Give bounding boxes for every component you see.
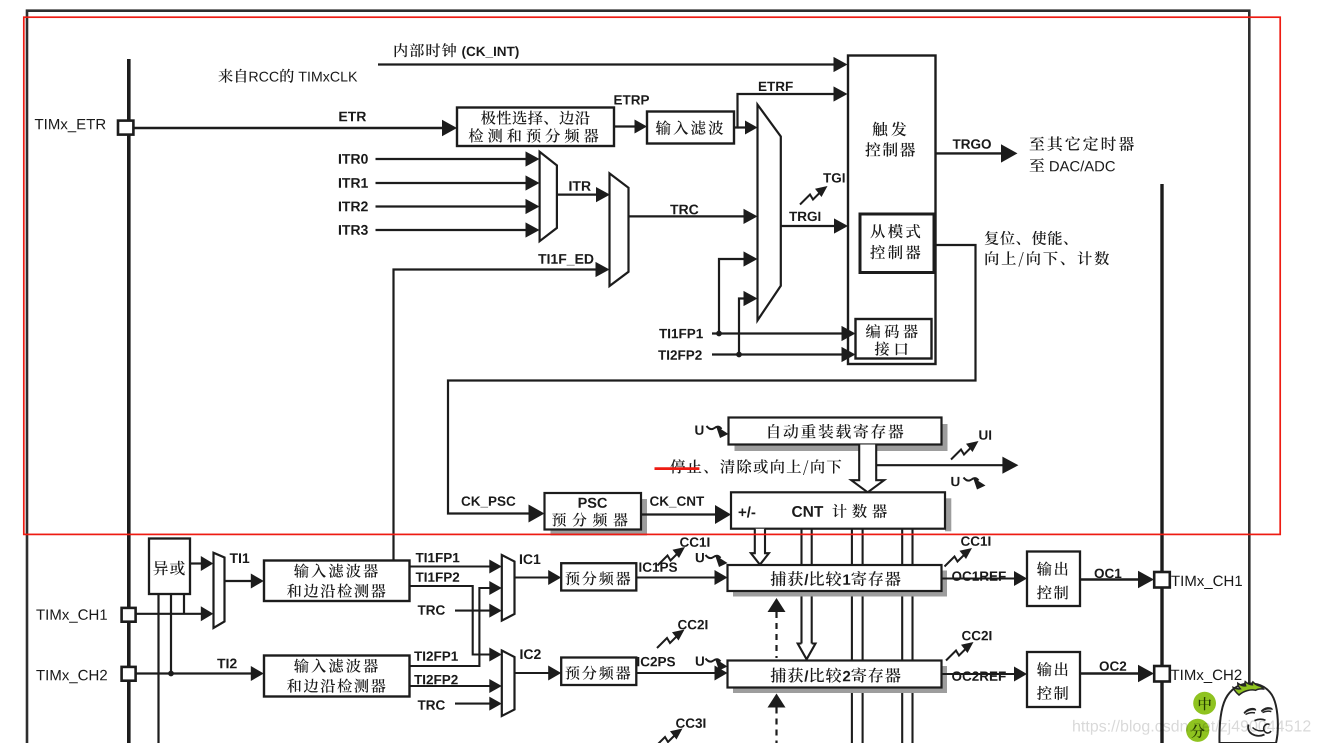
- label TIMx_CH2 (right): [1171, 670, 1242, 684]
- wire IC1PS into capture1: [636, 576, 715, 578]
- box capture/compare register 2 捕获/比较2寄存器: [733, 666, 947, 693]
- double line B down: [851, 529, 853, 565]
- label TI2FP2 (top): [658, 350, 702, 359]
- box input filter & edge detector 2 输入滤波器和边沿检测器: [264, 656, 410, 697]
- label TIMx_CH1 (right): [1171, 576, 1242, 590]
- label 内部时钟 (CK_INT): [395, 43, 519, 59]
- hollow arrow (line A) into capture2: [800, 591, 802, 648]
- wire TRC into IC1 mux: [455, 610, 490, 612]
- box capture/compare register 1 捕获/比较1寄存器: [733, 571, 947, 597]
- mascot eyes: [1244, 708, 1257, 714]
- wire ETRP: [614, 125, 636, 127]
- wire TIMx_CH1 to TI1 mux: [136, 613, 202, 615]
- green badge circle 分 (cut off): [1186, 719, 1209, 742]
- label 复位、使能、: [985, 231, 1068, 245]
- wire ETR: [133, 127, 443, 130]
- label CC1I + zigzag (right): [945, 553, 967, 567]
- red annotation strikethrough on 停止: [655, 467, 700, 470]
- label CK_CNT: [650, 496, 704, 507]
- wire TI1FP1 to encoder: [712, 332, 843, 334]
- label TI1: [230, 553, 250, 563]
- label CC2I + zigzag (left, mid): [657, 634, 679, 648]
- label ETRP: [614, 95, 649, 104]
- label U + update arrow into ARR: [695, 426, 703, 435]
- wire TRC into IC2 mux: [455, 703, 490, 705]
- box prescaler 1 预分频器: [561, 563, 636, 590]
- wire CK_CNT: [641, 513, 716, 515]
- box trigger controller 触发控制器: [848, 56, 936, 365]
- wire ITR1: [376, 182, 527, 184]
- hollow arrow ARR to CNT: [851, 445, 884, 493]
- label IC1: [520, 554, 541, 564]
- wire ITR0: [376, 158, 527, 160]
- label TRC (top): [670, 205, 698, 215]
- pad TIMx_CH1: [122, 608, 136, 622]
- wire TI2FP2 to encoder: [712, 353, 843, 355]
- mascot green hair: [1233, 682, 1263, 695]
- label OC1REF: [952, 571, 1006, 581]
- wire TRGO output: [936, 152, 1003, 154]
- label U + squiggle into capture2: [696, 657, 704, 666]
- wire IC2PS into capture2: [636, 672, 715, 674]
- dashed compare arrow up into capture1: [768, 598, 786, 612]
- wire ETRF to trigger controller: [734, 94, 835, 128]
- label ITR3: [339, 225, 368, 235]
- wire IC1 to prescaler1: [515, 576, 550, 578]
- green badge circle 中: [1193, 692, 1216, 715]
- wire TI1 into filter box1: [225, 580, 252, 582]
- wire TI1FP1 into main mux: [719, 259, 745, 334]
- wire ITR2: [376, 205, 527, 207]
- label OC2REF: [952, 671, 1006, 681]
- label ETRF: [759, 82, 793, 91]
- mux ITR selector: [540, 152, 557, 241]
- label 停止、清除或向上/向下: [670, 459, 841, 475]
- box slave mode controller 从模式控制器: [860, 214, 934, 273]
- label TRC (channel 1): [418, 605, 445, 615]
- wire XOR output to TI1 mux: [190, 562, 202, 564]
- label TI2FP2: [414, 675, 458, 684]
- wire TRGI into slave mode controller: [781, 225, 835, 227]
- wire OC1REF: [942, 577, 1016, 579]
- box polarity-select edge-detect prescaler 极性选择、边沿/检测和预分频器: [457, 108, 614, 147]
- red annotation rectangle: [24, 17, 1280, 534]
- wire TRC into main mux: [629, 215, 745, 217]
- label TI1F_ED: [538, 254, 593, 265]
- label OC2: [1100, 661, 1127, 671]
- pad TIMx_CH2 (right): [1154, 666, 1170, 682]
- watermark url text: [1073, 720, 1310, 735]
- mux TRC selector: [610, 173, 629, 286]
- wire OC1 to pad: [1080, 578, 1139, 581]
- label CC2I + zigzag (right): [946, 647, 968, 661]
- wire OC2 to pad: [1080, 672, 1139, 675]
- label 至其它定时器: [1030, 136, 1134, 151]
- wire TI2FP2 into IC2 mux: [410, 685, 491, 687]
- box output control 1 输出控制: [1027, 552, 1080, 607]
- wire ITR to TRC mux: [557, 194, 597, 196]
- label TGI + interrupt zigzag: [800, 191, 822, 205]
- label UI + interrupt zigzag: [951, 446, 973, 460]
- wire IC2 to prescaler2: [515, 672, 550, 674]
- wire ITR3: [376, 229, 527, 231]
- label CK_PSC: [462, 496, 516, 507]
- mux TI1 selector: [214, 553, 225, 628]
- hollow arrow CNT to capture1: [751, 529, 769, 565]
- label TI2: [217, 659, 237, 669]
- label IC2: [520, 649, 540, 659]
- label 来自RCC的TIMxCLK: [218, 69, 357, 83]
- mux main trigger selector: [758, 105, 781, 321]
- box input filter & edge detector 1 输入滤波器和边沿检测器: [264, 561, 410, 602]
- right pin bus line: [1160, 184, 1163, 743]
- label CC3I + zigzag (bottom, cut off): [655, 733, 677, 743]
- label OC1: [1095, 569, 1122, 579]
- mascot face (CSDN meme): [1219, 684, 1277, 743]
- label TIMx_CH2: [36, 670, 107, 684]
- label ETR: [339, 112, 366, 122]
- label ITR2: [339, 201, 368, 211]
- label TI2FP1: [414, 651, 458, 660]
- mascot mouth: [1255, 719, 1266, 720]
- box XOR 异或: [149, 539, 190, 595]
- wire OC2REF: [942, 673, 1016, 675]
- mux IC1 selector: [502, 555, 515, 621]
- label ITR1: [339, 178, 368, 188]
- box auto-reload register 自动重装载寄存器: [735, 424, 948, 451]
- wire CK_INT into trigger controller: [378, 63, 835, 65]
- label TI1FP1: [416, 553, 460, 562]
- label IC2PS: [637, 657, 675, 667]
- label 至 DAC/ADC: [1030, 158, 1115, 172]
- label TIMx_CH1: [36, 609, 107, 623]
- box input filter 输入滤波: [647, 112, 734, 144]
- wire TI2FP2 into main mux: [739, 299, 745, 355]
- label TRC (channel 2): [418, 700, 445, 710]
- wire TI2 into filter box2: [136, 672, 252, 674]
- label TIMx_ETR: [35, 119, 106, 132]
- label TRGI: [789, 212, 820, 222]
- label CC1I + zigzag (left): [658, 552, 680, 566]
- wire TI1FP2 down to IC2 mux: [410, 586, 490, 655]
- label U + event arrow (right): [951, 477, 959, 486]
- wire TI1FP1 into IC1 mux: [410, 565, 491, 567]
- label TI1FP2: [416, 572, 460, 581]
- double line A (CNT) to capture2 segment above capture1: [800, 529, 802, 565]
- box PSC prescaler PSC预分频器: [551, 499, 648, 536]
- wire XOR input from CH3 (vertical): [157, 594, 159, 743]
- label ITR: [569, 181, 590, 191]
- wire TI2FP1 up to IC1 mux: [410, 588, 490, 666]
- label TRGO: [953, 139, 991, 149]
- mux IC2 selector: [502, 651, 515, 717]
- box output control 2 输出控制: [1027, 652, 1080, 707]
- pad TIMx_CH1 (right): [1154, 572, 1170, 588]
- wire XOR input from CH1 (vertical): [183, 594, 185, 614]
- wire XOR input from CH2 (vertical): [170, 594, 172, 674]
- wire slave controller output to CK_PSC: [448, 245, 976, 514]
- label ITR0: [339, 154, 368, 164]
- box CNT counter CNT计数器: [945, 498, 951, 531]
- label IC1PS: [639, 562, 677, 572]
- pad TIMx_CH2: [122, 667, 136, 681]
- dashed compare arrow up into capture2: [768, 694, 786, 708]
- box prescaler 2 预分频器: [561, 658, 636, 686]
- box encoder interface 编码器接口: [856, 319, 932, 359]
- wire update event to right: [876, 464, 1003, 466]
- label TI1FP1 (top): [659, 329, 703, 338]
- label 向上/向下、计数: [986, 251, 1110, 267]
- wire ETRF into main mux: [738, 126, 747, 128]
- wire TI1F_ED (from input filter box 1 up into TRC mux): [394, 270, 597, 561]
- double line C down: [901, 529, 903, 565]
- left pin bus line: [127, 59, 131, 743]
- pad TIMx_ETR: [118, 121, 133, 135]
- label U + squiggle into capture1: [696, 553, 704, 562]
